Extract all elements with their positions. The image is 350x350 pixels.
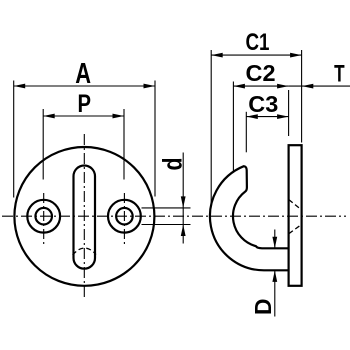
dimension C1: dimension line — [211, 54, 301, 56]
dimension C2/C3 shared right extension line at plate front face — [288, 90, 290, 136]
left hole vertical centerline — [43, 193, 45, 244]
dimension d: vertical dimension line — [182, 153, 184, 244]
dimension D: upper dimension line segment — [274, 230, 276, 249]
svg-text:C1: C1 — [246, 29, 270, 56]
svg-text:T: T — [334, 61, 345, 88]
dimension C3: extension line left — [245, 112, 247, 153]
svg-text:C3: C3 — [248, 91, 278, 117]
svg-text:d: d — [158, 158, 188, 171]
dimension P: extension line right — [123, 109, 125, 180]
dimension C3: right arrowhead — [277, 114, 289, 119]
central slot (obround) — [74, 166, 96, 269]
hidden line lower diagonal on plate — [289, 225, 302, 234]
dimension D: lower dimension line segment — [274, 270, 276, 316]
round plate front view: outer circle — [14, 147, 154, 286]
dimension d: lower extension line — [142, 224, 191, 226]
svg-text:P: P — [78, 90, 92, 118]
plate side view rectangle — [289, 145, 302, 286]
dimension C2: dimension line — [233, 85, 288, 87]
vertical centerline of plate/slot — [83, 134, 85, 300]
dimension C1: left arrowhead — [211, 53, 223, 58]
dimension A: right arrowhead — [144, 84, 156, 89]
svg-text:D: D — [250, 299, 276, 316]
right hole outer circle — [108, 200, 141, 233]
dimension P: left arrowhead — [43, 114, 55, 119]
dimension C1: right arrowhead — [290, 53, 302, 58]
dimension C3: dimension line — [246, 116, 288, 118]
dimension C2: left arrowhead — [233, 84, 245, 89]
dimension D: lower arrowhead pointing up — [272, 270, 277, 282]
dimension A: left arrowhead — [14, 84, 26, 89]
left hole outer circle — [27, 200, 60, 233]
hook side view outline — [210, 166, 289, 270]
dimension d: lower arrowhead pointing up — [181, 225, 186, 237]
dimension D: upper arrowhead pointing down — [272, 237, 277, 249]
dimension P: extension line left — [42, 109, 44, 180]
dimension C1: extension line left — [210, 50, 212, 203]
dimension C2: extension line left — [232, 82, 234, 173]
dimension C3: left arrowhead — [246, 114, 257, 119]
svg-text:A: A — [75, 58, 91, 90]
dimension d: upper extension line — [142, 207, 191, 209]
dimension C1: extension line right — [301, 50, 303, 143]
hidden hook bend arc (dashed) across slot — [73, 248, 96, 255]
dimension A: extension line left — [13, 81, 15, 198]
dimension C2: right arrowhead — [277, 84, 289, 89]
dimension P: right arrowhead — [113, 114, 125, 119]
left hole inner circle — [35, 208, 52, 225]
right hole inner circle — [116, 208, 132, 225]
dimension T: arrowhead pointing left at plate back face — [302, 84, 314, 89]
horizontal centerline through both views — [2, 215, 346, 217]
dimension T: dimension line extending right — [289, 85, 350, 87]
dimension d: upper arrowhead pointing down — [181, 196, 186, 208]
hidden line upper diagonal on plate — [289, 200, 302, 210]
dimension P: dimension line — [43, 115, 124, 117]
svg-text:C2: C2 — [246, 60, 276, 86]
right hole vertical centerline — [123, 193, 125, 244]
dimension A: dimension line — [14, 85, 155, 87]
dimension A: extension line right — [154, 81, 156, 197]
